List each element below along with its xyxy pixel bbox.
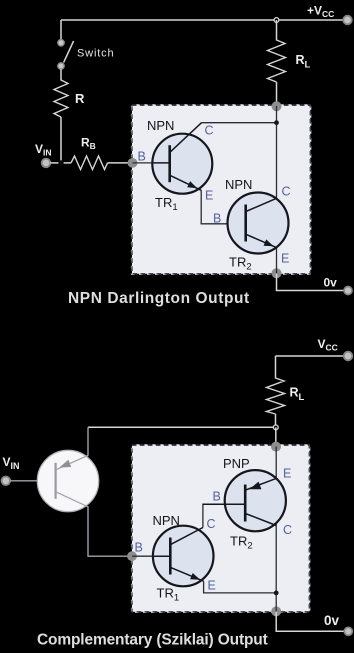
- svg-text:B: B: [213, 212, 221, 226]
- terminal VIN: [2, 477, 11, 486]
- resistor RL: [267, 378, 285, 414]
- svg-text:B: B: [138, 150, 146, 164]
- wire: base lead into TR1: [132, 555, 171, 557]
- terminal 0v: [344, 627, 352, 635]
- svg-text:NPN Darlington Output: NPN Darlington Output: [68, 290, 250, 307]
- transistor TR1 (NPN): [153, 526, 214, 587]
- svg-text:E: E: [281, 252, 289, 266]
- terminal dot bottom on box edge: [271, 606, 281, 616]
- svg-text:C: C: [207, 517, 216, 531]
- terminal dot top on box edge: [271, 442, 281, 452]
- junction dot at VIN node: [58, 160, 63, 165]
- terminal dot B on box edge: [127, 551, 137, 561]
- wire: left rail to node: [88, 426, 276, 428]
- terminal Vcc: [344, 352, 353, 361]
- svg-text:B: B: [213, 490, 221, 504]
- node circle: [273, 425, 278, 430]
- wire: TR1 emitter to TR2 base: [201, 190, 246, 224]
- svg-text:B: B: [135, 541, 143, 555]
- svg-text:0v: 0v: [324, 613, 340, 628]
- wire: driver emitter up to rail: [87, 427, 89, 455]
- svg-text:Complementary (Sziklai) Output: Complementary (Sziklai) Output: [37, 632, 268, 649]
- svg-text:Switch: Switch: [77, 48, 115, 60]
- wire: switch to resistor R: [60, 69, 62, 80]
- wire: top horizontal C link: [202, 122, 277, 124]
- wire: junction to RB: [61, 162, 71, 164]
- junction dot: [274, 120, 279, 125]
- junction dot: [274, 591, 279, 596]
- wire: R down to VIN junction: [60, 117, 62, 163]
- resistor R: [54, 80, 68, 117]
- svg-text:PNP: PNP: [223, 456, 250, 471]
- wire: emitter out to 0v: [277, 274, 345, 291]
- resistor RB: [71, 156, 108, 170]
- switch contact top: [58, 40, 64, 46]
- transistor TR2 (NPN): [228, 193, 289, 254]
- svg-text:NPN: NPN: [147, 118, 174, 133]
- terminal 0v: [344, 287, 352, 295]
- resistor RL: [268, 40, 286, 82]
- wire: emitter out to 0v: [276, 612, 344, 631]
- terminal dot collector top on box edge: [272, 101, 282, 111]
- wire: node to box: [275, 427, 277, 446]
- svg-text:E: E: [208, 579, 216, 593]
- wire: base lead into TR1: [133, 162, 171, 164]
- svg-text:NPN: NPN: [225, 177, 252, 192]
- svg-text:NPN: NPN: [153, 513, 180, 528]
- svg-text:C: C: [282, 185, 291, 199]
- svg-text:E: E: [283, 467, 291, 481]
- wire: RL top lead: [276, 20, 278, 41]
- terminal dot emitter bottom on box edge: [272, 268, 282, 278]
- node at top of RL: [274, 18, 279, 23]
- sziklai box: [132, 445, 309, 612]
- wire: top +Vcc rail: [61, 19, 344, 21]
- wire: RL top lead: [275, 356, 277, 379]
- darlington box: [132, 105, 310, 273]
- svg-text:E: E: [205, 189, 213, 203]
- wire: vertical collector line inside box: [276, 106, 278, 273]
- transistor driver (PNP): [37, 450, 98, 511]
- wire: RB to box: [108, 162, 133, 164]
- wire: VIN to driver base: [10, 480, 56, 482]
- wire: Vcc rail: [276, 355, 345, 357]
- terminal VIN: [42, 159, 51, 168]
- svg-text:C: C: [283, 523, 292, 537]
- wire: TR1 collector to TR2 base: [203, 504, 246, 527]
- svg-text:0v: 0v: [324, 276, 338, 290]
- wire: vertical line inside box: [275, 447, 277, 612]
- transistor TR1 (NPN): [152, 123, 212, 194]
- switch contact bottom: [58, 63, 64, 69]
- wire: left branch down to switch: [60, 20, 62, 40]
- wire: TR1 emitter to vertical line: [204, 581, 277, 593]
- svg-text:C: C: [205, 124, 214, 138]
- svg-text:R: R: [75, 91, 85, 106]
- terminal dot B on box edge: [128, 158, 138, 168]
- transistor TR2 (PNP): [203, 470, 286, 531]
- wire: RL to node: [275, 414, 277, 427]
- wire: driver collector down and into box: [88, 506, 132, 556]
- wire: RL to box: [276, 82, 278, 106]
- wire: VIN to junction: [50, 162, 61, 164]
- switch blade: [64, 41, 74, 63]
- terminal +Vcc: [343, 16, 352, 25]
